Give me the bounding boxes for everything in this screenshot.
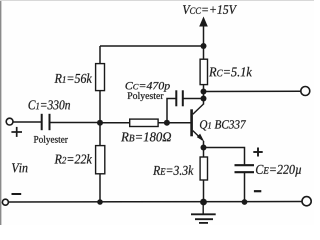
input plus sign: [11, 127, 22, 137]
label R2=22k: [54, 154, 91, 163]
resistor RB: [130, 119, 158, 126]
capacitor CC plates: [176, 90, 183, 106]
bottom-left terminal: [2, 199, 8, 205]
label Polyester (C1): [34, 136, 68, 145]
resistor RE: [200, 157, 207, 180]
node collector-Cc: [201, 96, 207, 102]
wire Ce bottom lead: [244, 173, 246, 203]
label Cc=470p: [125, 82, 169, 92]
label Q1 BC337: [200, 120, 246, 130]
node Vcc: [201, 43, 207, 49]
node base-left: [97, 120, 103, 126]
input minus sign: [12, 193, 22, 195]
wire base rail to transistor base: [100, 122, 191, 124]
node bottom-Ce: [242, 199, 248, 205]
label R1=56k: [54, 73, 91, 82]
node bottom-left: [97, 199, 103, 205]
wire bottom rail: [8, 201, 302, 204]
resistor R2: [96, 146, 105, 174]
output terminal: [301, 87, 310, 96]
input terminal: [6, 118, 13, 125]
wire top rail: [100, 45, 204, 47]
Ce minus sign: [254, 190, 261, 192]
label RE=3.3k: [153, 165, 194, 175]
wire Cc left lead: [167, 99, 176, 123]
wire collector branch: [203, 46, 205, 105]
node collector-output: [201, 89, 207, 95]
label Vcc=+15V: [183, 5, 237, 14]
node bottom-ground: [200, 199, 207, 206]
wire emitter down: [203, 141, 205, 202]
resistor RC: [200, 59, 207, 84]
ground: [191, 202, 216, 223]
Ce plus sign: [253, 148, 262, 157]
wire C1 to base node: [50, 122, 100, 124]
wire vertical bias divider: [99, 46, 101, 202]
label RB=180ohm: [121, 132, 171, 141]
node base-right (Cc tap): [164, 120, 170, 126]
label C1=330n: [28, 100, 70, 109]
label Polyester (Cc): [128, 92, 164, 101]
wire Vcc stem: [203, 24, 205, 46]
node emitter: [201, 145, 207, 151]
capacitor CE plates: [235, 165, 255, 172]
label Vin: [12, 163, 28, 172]
label CE=220u: [256, 165, 301, 177]
capacitor C1 plates: [42, 114, 50, 130]
wire input to C1: [13, 121, 41, 123]
bottom-right terminal: [302, 197, 311, 206]
transistor Q1 emitter arrow: [197, 134, 205, 142]
wire Cc right lead: [183, 98, 204, 100]
transistor Q1: [192, 104, 204, 140]
wire output: [204, 90, 301, 92]
label Rc=5.1k: [209, 67, 252, 77]
Vcc arrow head: [199, 17, 208, 27]
page left border: [0, 0, 2, 225]
resistor R1: [96, 64, 105, 91]
wire emitter to Ce: [204, 148, 245, 165]
page top border: [0, 0, 314, 2]
